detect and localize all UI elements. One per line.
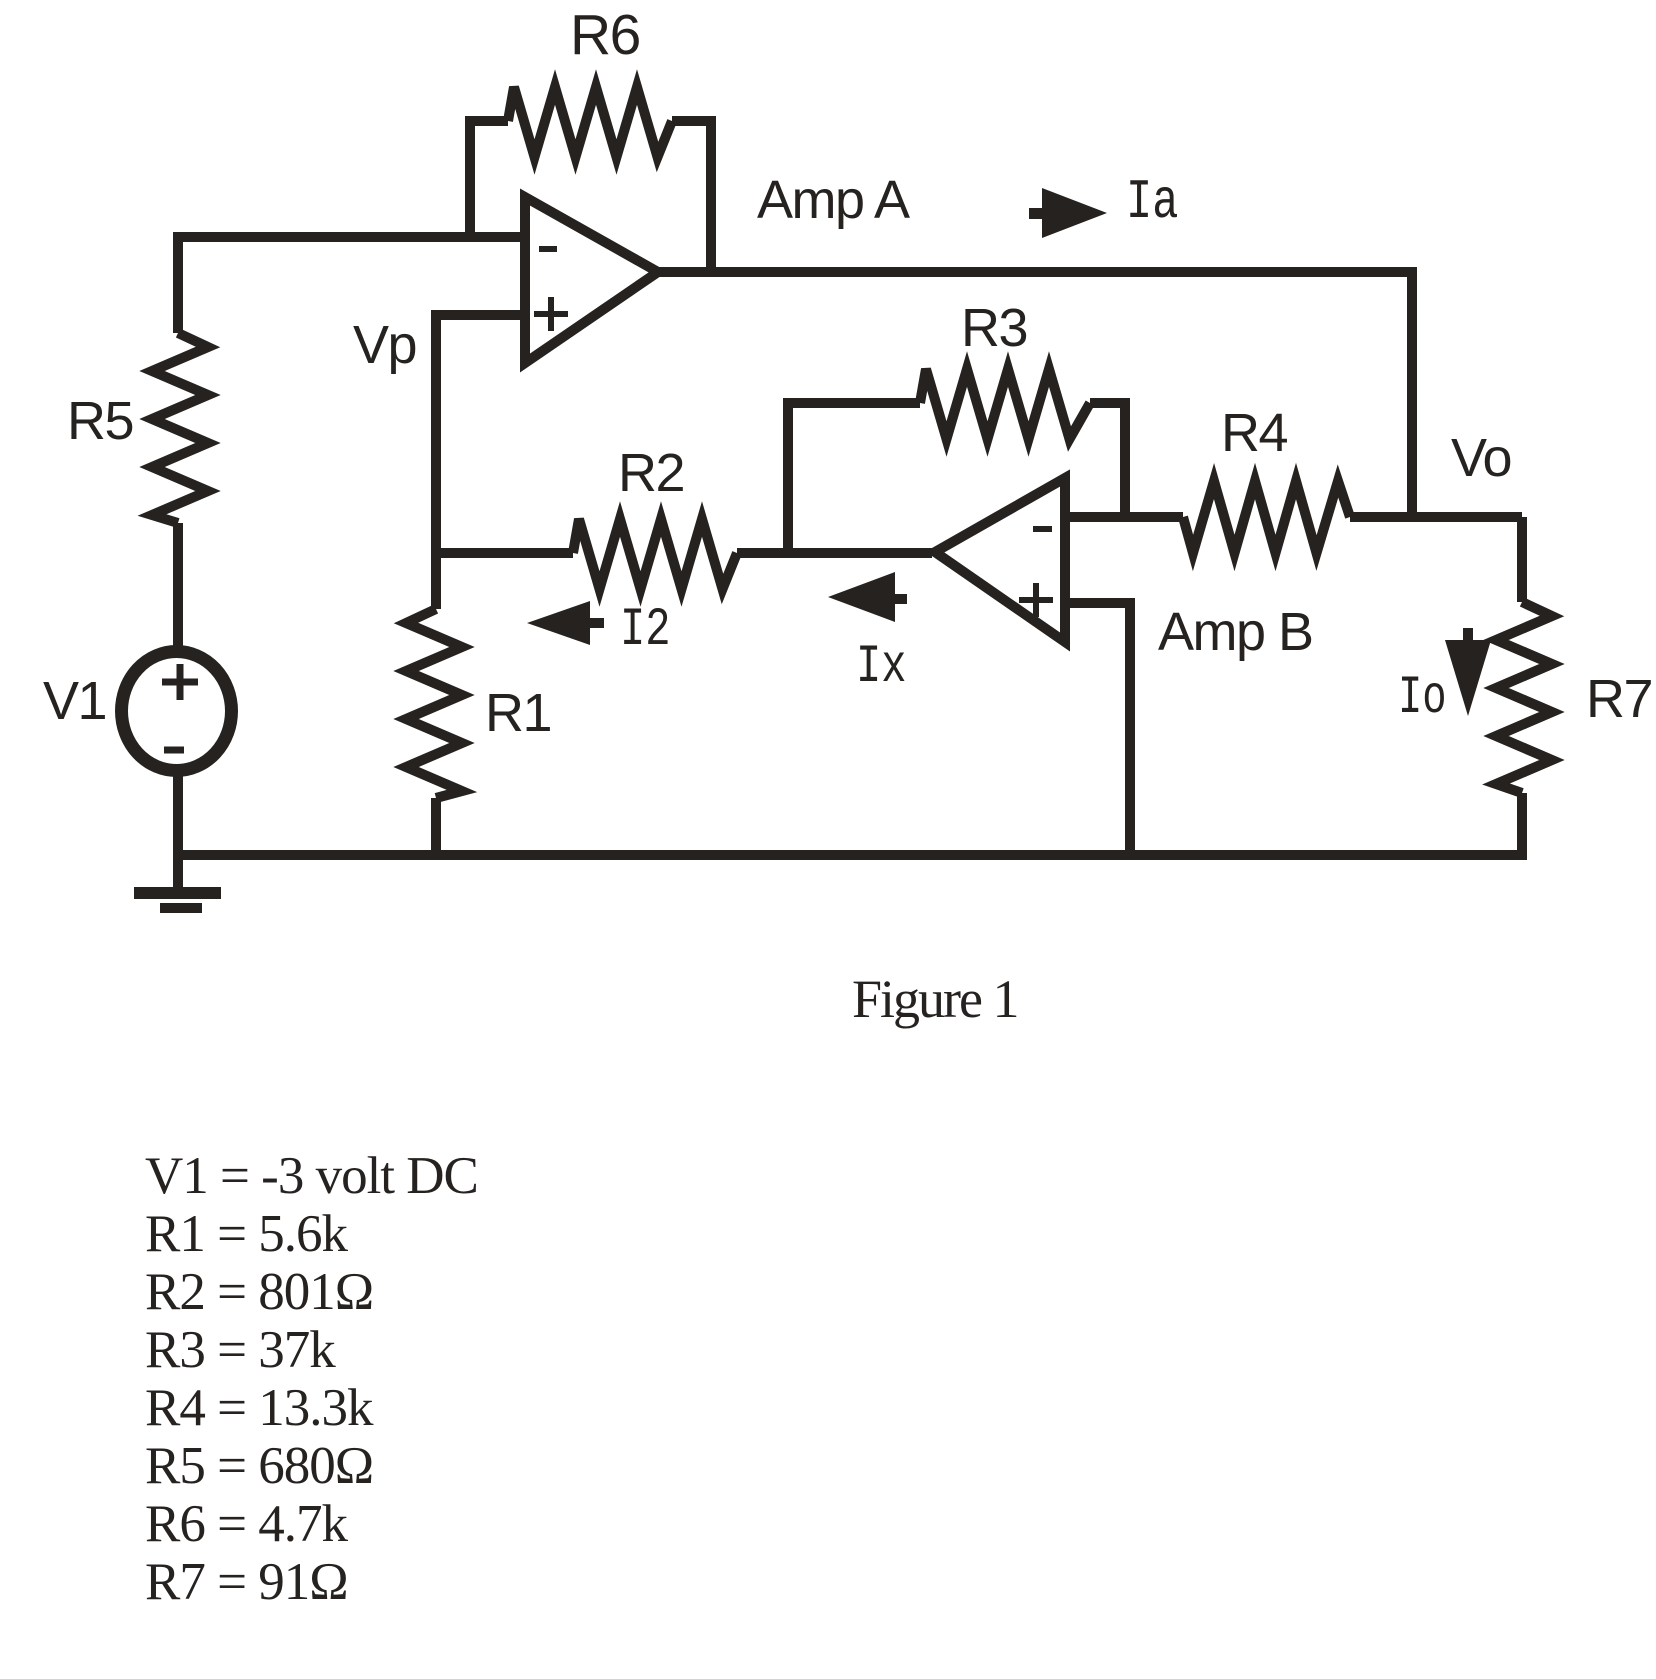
svg-text:R7 = 91Ω: R7 = 91Ω xyxy=(145,1553,348,1611)
svg-text:R1: R1 xyxy=(485,683,551,743)
svg-text:Amp A: Amp A xyxy=(757,170,910,230)
svg-text:R6: R6 xyxy=(570,3,640,67)
svg-text:V1 = -3 volt DC: V1 = -3 volt DC xyxy=(145,1147,478,1205)
svg-text:R6 = 4.7k: R6 = 4.7k xyxy=(145,1495,348,1553)
svg-text:R3 = 37k: R3 = 37k xyxy=(145,1321,336,1379)
svg-text:Vo: Vo xyxy=(1451,428,1511,488)
svg-text:Vp: Vp xyxy=(353,315,416,375)
svg-text:R5 = 680Ω: R5 = 680Ω xyxy=(145,1437,373,1495)
svg-text:R2: R2 xyxy=(618,443,684,503)
svg-text:I2: I2 xyxy=(620,599,671,660)
svg-text:R3: R3 xyxy=(961,298,1027,358)
svg-text:Figure 1: Figure 1 xyxy=(852,969,1018,1029)
svg-text:V1: V1 xyxy=(43,671,106,731)
svg-text:R5: R5 xyxy=(67,391,133,451)
svg-text:R4: R4 xyxy=(1221,403,1287,463)
svg-text:Amp B: Amp B xyxy=(1158,602,1313,662)
svg-text:R4 = 13.3k: R4 = 13.3k xyxy=(145,1379,374,1437)
svg-text:Ix: Ix xyxy=(856,636,907,697)
svg-text:R7: R7 xyxy=(1586,669,1652,729)
svg-text:R1 = 5.6k: R1 = 5.6k xyxy=(145,1205,348,1263)
svg-text:R2 = 801Ω: R2 = 801Ω xyxy=(145,1263,373,1321)
svg-text:Ia: Ia xyxy=(1126,171,1178,235)
svg-text:Io: Io xyxy=(1398,668,1447,729)
